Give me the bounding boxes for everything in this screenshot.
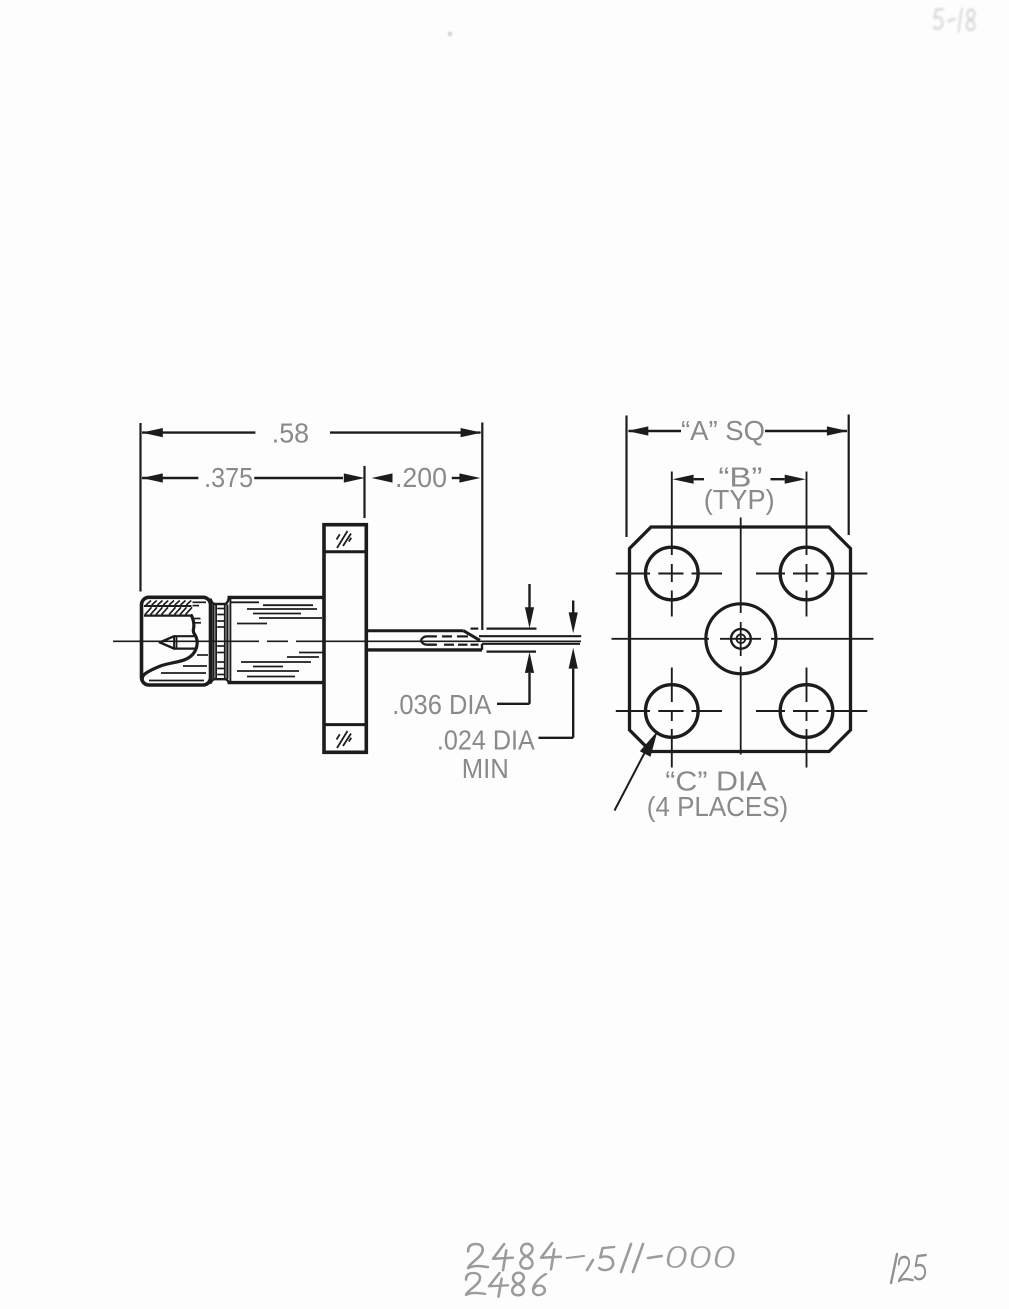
svg-text:(4 PLACES): (4 PLACES)	[647, 791, 788, 822]
svg-text:MIN: MIN	[462, 753, 509, 784]
svg-text:.024 DIA: .024 DIA	[437, 724, 535, 755]
svg-text:.58: .58	[272, 418, 309, 449]
svg-text:.200: .200	[395, 462, 447, 493]
svg-text:(TYP): (TYP)	[704, 484, 775, 515]
svg-text:.375: .375	[204, 462, 253, 493]
svg-text:.036 DIA: .036 DIA	[392, 689, 491, 720]
svg-text:“A” SQ: “A” SQ	[681, 415, 765, 446]
